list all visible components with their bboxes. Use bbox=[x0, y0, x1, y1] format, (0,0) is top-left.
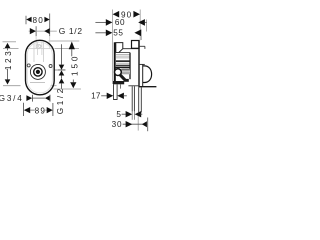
svg-text:89: 89 bbox=[35, 106, 47, 115]
svg-text:60: 60 bbox=[115, 18, 125, 27]
svg-text:G3/4: G3/4 bbox=[0, 94, 24, 103]
svg-text:55: 55 bbox=[113, 29, 123, 38]
svg-text:G1/2: G1/2 bbox=[56, 86, 65, 114]
svg-text:5: 5 bbox=[116, 110, 121, 119]
svg-text:123: 123 bbox=[4, 49, 13, 70]
svg-text:17: 17 bbox=[91, 92, 101, 101]
svg-text:150: 150 bbox=[70, 54, 79, 76]
svg-text:80: 80 bbox=[32, 16, 44, 25]
svg-text:30: 30 bbox=[112, 120, 123, 129]
svg-text:G 1/2: G 1/2 bbox=[59, 26, 83, 36]
